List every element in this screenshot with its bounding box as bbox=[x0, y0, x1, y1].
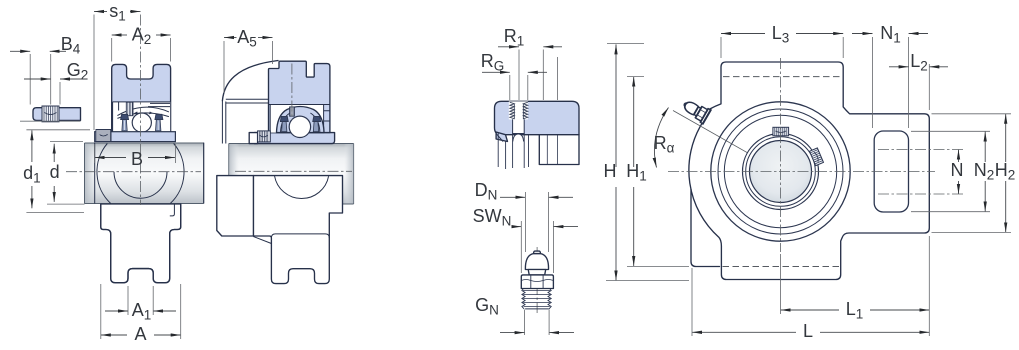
dim A5 bbox=[224, 37, 237, 39]
seal right (view 2) bbox=[313, 116, 321, 121]
svg-text:R1: R1 bbox=[504, 26, 525, 49]
nipple top nub bbox=[534, 251, 541, 254]
housing band section (blue) bbox=[495, 101, 580, 134]
dim A bbox=[101, 334, 127, 336]
dim B4 bbox=[10, 50, 30, 52]
grease nipple (view 3) bbox=[680, 96, 712, 124]
svg-text:L3: L3 bbox=[772, 23, 790, 46]
housing cap (view 2, blue) bbox=[269, 61, 330, 132]
boss arc left (over shaft) bbox=[97, 144, 111, 204]
grub screw top (view 3) bbox=[773, 127, 789, 136]
dim L2 bbox=[889, 66, 909, 68]
svg-text:B: B bbox=[131, 149, 143, 169]
hidden slot line bottom bbox=[723, 266, 840, 268]
frame block (side view) bbox=[253, 176, 342, 284]
shaft (view 1) bbox=[85, 143, 204, 204]
housing front edges crossing shaft bbox=[95, 143, 204, 204]
lower frame (A/A1 slot body) bbox=[101, 204, 181, 283]
svg-text:s1: s1 bbox=[109, 1, 126, 24]
bearing cavity (white) inside cap bbox=[113, 102, 171, 132]
dim L bbox=[692, 331, 796, 333]
dim s1 bbox=[94, 11, 107, 13]
shaft centerline (view 2) bbox=[235, 170, 352, 172]
thread hole bbox=[509, 101, 528, 119]
right lower block (white) bbox=[539, 135, 579, 165]
bearing cavity (white, view 2) bbox=[270, 105, 323, 133]
svg-text:SWN: SWN bbox=[473, 206, 512, 229]
svg-text:GN: GN bbox=[475, 295, 499, 318]
screw centerline (view 2) bbox=[291, 64, 293, 121]
dim R1 bbox=[498, 46, 519, 48]
dim DN bbox=[500, 196, 525, 198]
boss arc right (over shaft) bbox=[170, 144, 184, 204]
grub screw side (view 3) bbox=[810, 148, 824, 166]
centerline horizontal shaft (view 1) bbox=[66, 171, 201, 173]
grease passage cone bbox=[513, 134, 524, 142]
seal right bbox=[155, 114, 163, 119]
dim L3 bbox=[721, 33, 765, 35]
svg-text:d: d bbox=[50, 162, 60, 182]
centerline vertical (view 3) bbox=[780, 58, 782, 252]
boss outer circle bbox=[711, 102, 850, 241]
nipple thread stud bbox=[522, 289, 525, 309]
frame outline (boss + plates) bbox=[689, 62, 929, 280]
dim RG bbox=[482, 71, 510, 73]
svg-text:H2: H2 bbox=[995, 160, 1016, 183]
dim SWN bbox=[514, 226, 522, 228]
svg-text:H: H bbox=[604, 161, 617, 181]
dim N1 bbox=[852, 33, 873, 35]
dim B bbox=[95, 157, 126, 159]
left flange edge (behind boss) bbox=[691, 190, 720, 267]
cover plate swoosh bbox=[222, 61, 278, 101]
svg-text:RG: RG bbox=[481, 51, 505, 74]
dim L1 bbox=[781, 309, 840, 311]
svg-text:N2: N2 bbox=[974, 160, 995, 183]
seal left (view 2) bbox=[280, 116, 288, 121]
frame flange (side view, front) bbox=[217, 176, 254, 236]
boss dome arc (side view) bbox=[275, 176, 329, 199]
dim H bbox=[615, 44, 617, 167]
svg-text:A1: A1 bbox=[132, 300, 152, 323]
seal left bbox=[121, 114, 129, 119]
section verticals below bbox=[498, 133, 528, 169]
collar knurl screw box (view 2) bbox=[258, 131, 271, 142]
dim A1 bbox=[105, 310, 128, 312]
thread zigzag left bbox=[510, 102, 515, 119]
dim H1 bbox=[633, 77, 635, 167]
collar knurl screw box (view 1) bbox=[96, 130, 111, 142]
cap seat lines right bbox=[148, 103, 170, 106]
svg-text:G2: G2 bbox=[67, 60, 89, 83]
svg-text:N: N bbox=[951, 160, 964, 180]
ball (view 1) bbox=[132, 113, 151, 132]
bore circle (shaft hole) bbox=[750, 141, 812, 203]
outer ring raceway arc bbox=[117, 113, 168, 119]
seat circle bbox=[718, 109, 843, 234]
dim d bbox=[53, 144, 55, 162]
svg-text:L1: L1 bbox=[846, 299, 864, 322]
centerline vertical (view 1) bbox=[140, 15, 142, 206]
housing cap (blue, with top notch) bbox=[112, 64, 171, 131]
svg-text:DN: DN bbox=[475, 180, 498, 203]
inner ring face circle bbox=[746, 137, 816, 207]
cover plate edge bbox=[222, 101, 225, 144]
hole below thread bbox=[513, 119, 525, 133]
svg-text:A5: A5 bbox=[237, 27, 257, 50]
shaft (view 2) bbox=[229, 144, 354, 205]
bore rim arc (over shaft) bbox=[114, 172, 167, 199]
nipple dome head bbox=[525, 254, 548, 270]
svg-text:N1: N1 bbox=[880, 23, 901, 46]
dim N2 bbox=[984, 132, 986, 163]
outer ring seat arc bbox=[117, 107, 168, 115]
inner ring outer circle bbox=[743, 134, 819, 210]
svg-text:A2: A2 bbox=[132, 25, 152, 48]
svg-text:L: L bbox=[803, 321, 813, 341]
hidden slot line top bbox=[723, 76, 842, 78]
dim d1 bbox=[31, 130, 33, 162]
cage marks bbox=[134, 112, 153, 115]
outer ring dome (blue, view 2) bbox=[277, 107, 325, 133]
nipple centerline bbox=[536, 247, 538, 313]
block divider line (view 2) bbox=[271, 234, 329, 238]
white notch left bbox=[496, 134, 503, 142]
cover circle bbox=[724, 115, 836, 227]
ball (view 2) bbox=[289, 116, 310, 137]
dim R-alpha arc bbox=[654, 108, 668, 168]
svg-text:d1: d1 bbox=[23, 163, 41, 186]
thread zigzag right bbox=[523, 102, 528, 119]
dim A2 bbox=[112, 34, 127, 36]
collar bottom lip (blue) bbox=[255, 133, 335, 144]
svg-text:H1: H1 bbox=[626, 161, 647, 184]
cartridge lower right tab (view 1) bbox=[170, 204, 175, 216]
nipple axis line bbox=[673, 111, 781, 172]
nipple neck bbox=[528, 270, 546, 275]
collar end (white, view 2) bbox=[249, 133, 257, 144]
housing front band (blue) bbox=[95, 132, 176, 142]
dim G2 bbox=[24, 78, 51, 80]
grub screw section (view 2) bbox=[290, 107, 295, 116]
svg-text:A: A bbox=[134, 324, 146, 344]
left wall lower blue bbox=[496, 132, 507, 142]
svg-text:B4: B4 bbox=[61, 34, 81, 57]
centerline horizontal (view 3) bbox=[668, 171, 935, 173]
svg-text:Rα: Rα bbox=[654, 133, 675, 156]
ring collar bar detail (top left) bbox=[20, 106, 81, 122]
dim N bbox=[958, 150, 960, 163]
flange-to-block slant (view 2) bbox=[253, 237, 271, 244]
nipple hex bbox=[521, 275, 553, 289]
cover step section bbox=[226, 99, 269, 103]
dim H2 bbox=[1005, 114, 1007, 162]
slot hole right arm bbox=[874, 131, 908, 212]
cap grub screw section (view 1) bbox=[126, 102, 133, 116]
dim GN bbox=[500, 332, 525, 334]
svg-text:L2: L2 bbox=[910, 51, 928, 74]
